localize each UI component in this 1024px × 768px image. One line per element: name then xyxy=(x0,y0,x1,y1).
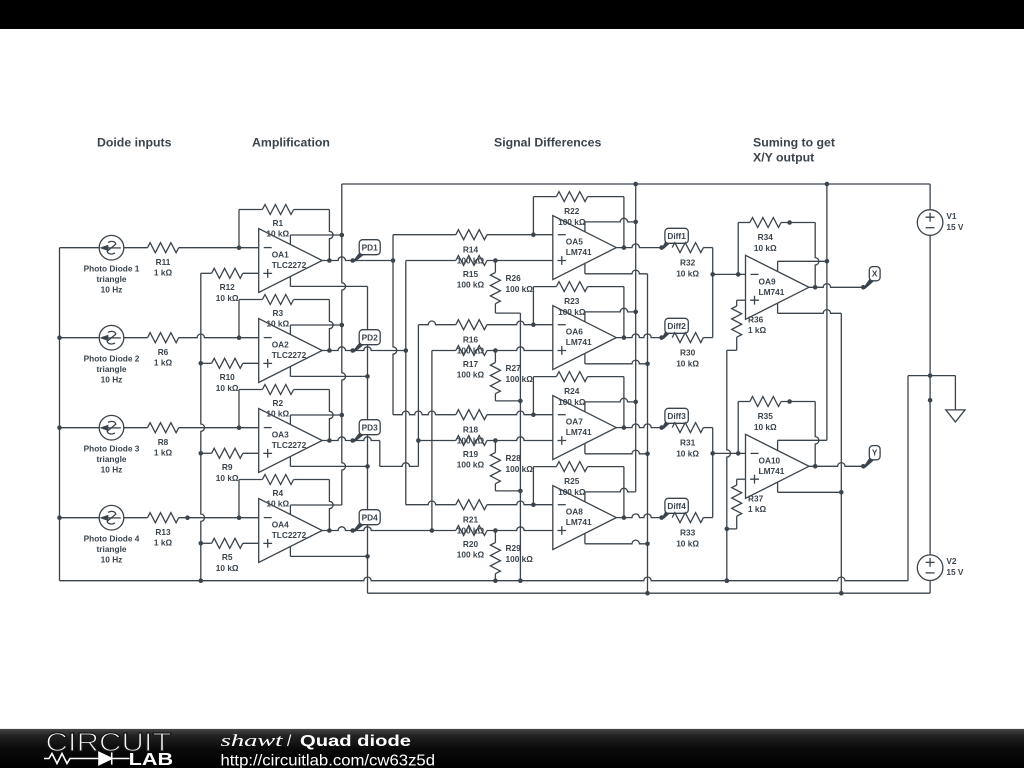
svg-text:R5: R5 xyxy=(222,552,233,562)
svg-text:TLC2272: TLC2272 xyxy=(272,260,307,270)
svg-text:shawt: shawt xyxy=(221,731,284,750)
resistor R10 10 kOhm xyxy=(212,358,243,368)
svg-text:10 Hz: 10 Hz xyxy=(101,284,123,294)
label R18 xyxy=(457,425,485,446)
op-amp OA7 LM741 xyxy=(553,396,617,460)
wire R18 to OA7 inverting input xyxy=(487,411,553,417)
wire node PD3 jog xyxy=(355,437,421,467)
footer url xyxy=(221,753,436,768)
label R12 xyxy=(216,282,239,303)
resistor R4 10 kOhm xyxy=(262,475,293,485)
wire ground tap right xyxy=(930,376,955,410)
label R25 xyxy=(558,476,586,497)
svg-text:X: X xyxy=(872,269,878,279)
svg-text:R22: R22 xyxy=(564,206,580,216)
wire R5 to OA4 non-inverting input xyxy=(243,542,259,544)
svg-text:triangle: triangle xyxy=(97,274,127,284)
resistor R12 10 kOhm xyxy=(212,268,243,278)
wire feedback riser right OA5 xyxy=(588,197,627,250)
wire V- pin OA4 xyxy=(290,547,369,559)
wire summing V+ bus xyxy=(825,182,830,441)
svg-text:100 kΩ: 100 kΩ xyxy=(506,284,534,294)
svg-text:10 kΩ: 10 kΩ xyxy=(754,422,777,432)
wire OA1 output xyxy=(322,257,353,261)
flag PD2 xyxy=(350,330,380,353)
flag Diff4 xyxy=(659,498,688,520)
wire diff V- bus xyxy=(647,274,649,593)
wire summing node to OA10 inverting input xyxy=(713,451,746,456)
resistor R35 10 kOhm xyxy=(750,397,781,407)
op-amp OA8 LM741 xyxy=(553,486,617,550)
wire OA5 output xyxy=(616,244,661,248)
label R34 xyxy=(754,232,777,253)
label R29 xyxy=(506,543,534,564)
flag Diff1 xyxy=(659,228,688,250)
wire V+ pin OA5 xyxy=(585,218,638,231)
resistor R23 100 kOhm xyxy=(556,282,587,292)
flag PD1 xyxy=(350,240,380,263)
wire R10 to ground bus xyxy=(199,361,212,366)
svg-text:10 kΩ: 10 kΩ xyxy=(676,448,699,458)
wire PD4 bus xyxy=(431,351,433,531)
svg-text:LAB: LAB xyxy=(129,749,174,768)
label Photo Diode 1 xyxy=(84,264,140,295)
svg-text:R9: R9 xyxy=(222,462,233,472)
resistor R26 100 kOhm xyxy=(490,261,500,304)
svg-text:Quad diode: Quad diode xyxy=(300,733,411,750)
svg-text:10 kΩ: 10 kΩ xyxy=(216,563,239,573)
wire R31 to summing node xyxy=(703,428,715,456)
svg-text:100 kΩ: 100 kΩ xyxy=(457,460,485,470)
wire V+ pin OA8 xyxy=(585,488,636,501)
section heading: Suming to get X/Y output xyxy=(753,136,835,165)
svg-text:100 kΩ: 100 kΩ xyxy=(558,307,586,317)
svg-text:Photo Diode 1: Photo Diode 1 xyxy=(84,264,140,274)
svg-text:10 kΩ: 10 kΩ xyxy=(216,473,239,483)
svg-text:PD3: PD3 xyxy=(362,423,379,433)
wire row 2 left xyxy=(60,337,100,339)
svg-text:100 kΩ: 100 kΩ xyxy=(558,217,586,227)
svg-text:R17: R17 xyxy=(463,359,479,369)
label R15 xyxy=(457,269,485,290)
resistor R18 100 kOhm xyxy=(456,410,487,420)
wire feedback top left OA3 xyxy=(239,389,262,391)
label R22 xyxy=(558,206,586,227)
svg-text:R26: R26 xyxy=(506,273,522,283)
label R35 xyxy=(754,411,777,432)
voltage source V2 15 V xyxy=(917,555,964,581)
wire R15 to OA5 non-inverting input xyxy=(487,258,553,263)
svg-text:Signal Differences: Signal Differences xyxy=(494,136,601,150)
label R24 xyxy=(558,386,586,407)
wire PD2 bus xyxy=(405,261,407,505)
label R2 xyxy=(266,398,289,419)
svg-text:R20: R20 xyxy=(463,539,479,549)
wire V+ pin OA7 xyxy=(585,398,638,411)
svg-text:1 kΩ: 1 kΩ xyxy=(154,268,173,278)
svg-text:R27: R27 xyxy=(506,363,522,373)
label R31 xyxy=(676,437,699,458)
svg-text:OA1: OA1 xyxy=(272,250,289,260)
wire feedback riser right OA8 xyxy=(588,467,627,520)
resistor R11 1 kOhm xyxy=(148,243,179,253)
svg-text:1 kΩ: 1 kΩ xyxy=(154,538,173,548)
wire to R21 xyxy=(406,501,456,505)
svg-text:Photo Diode 4: Photo Diode 4 xyxy=(84,534,140,544)
op-amp OA10 LM741 xyxy=(746,434,810,498)
wire node PD2 to bus xyxy=(355,347,408,353)
svg-text:10 kΩ: 10 kΩ xyxy=(266,409,289,419)
resistor R8 1 kOhm xyxy=(148,423,179,433)
svg-text:1 kΩ: 1 kΩ xyxy=(748,325,767,335)
wire TLC ground bus xyxy=(199,273,205,583)
svg-text:LM741: LM741 xyxy=(566,517,592,527)
svg-text:R18: R18 xyxy=(463,425,479,435)
wire feedback top right OA2 xyxy=(294,299,330,301)
op-amp OA2 TLC2272 xyxy=(259,319,323,383)
wire V- pin OA7 xyxy=(585,444,650,457)
wire V1 to V2 ground link xyxy=(928,235,933,555)
svg-text:Y: Y xyxy=(872,448,878,458)
svg-text:R3: R3 xyxy=(272,308,283,318)
wire ground tap left xyxy=(908,376,930,581)
wire R36 tail xyxy=(727,337,737,350)
resistor R34 10 kOhm xyxy=(750,218,781,228)
svg-text:R8: R8 xyxy=(158,437,169,447)
svg-text:Photo Diode 3: Photo Diode 3 xyxy=(84,444,140,454)
wire feedback riser right OA2 xyxy=(327,300,333,353)
wire summing V- bus xyxy=(840,313,842,593)
wire feedback top left OA2 xyxy=(239,299,262,301)
svg-text:R2: R2 xyxy=(272,398,283,408)
wire feedback riser left OA6 xyxy=(533,287,556,325)
svg-text:R37: R37 xyxy=(748,494,764,504)
svg-text:R13: R13 xyxy=(155,527,171,537)
section heading: Signal Differences xyxy=(494,136,601,150)
wire to R19 xyxy=(418,440,455,442)
svg-text:R32: R32 xyxy=(680,257,696,267)
svg-text:100 kΩ: 100 kΩ xyxy=(558,397,586,407)
label R10 xyxy=(216,372,239,393)
svg-text:OA2: OA2 xyxy=(272,340,289,350)
label R1 xyxy=(266,218,289,239)
resistor R25 100 kOhm xyxy=(556,462,587,472)
wire V+ pin OA4 xyxy=(290,505,341,515)
wire feedback riser right OA7 xyxy=(588,377,627,430)
resistor R19 100 kOhm xyxy=(456,436,487,446)
label R36 xyxy=(748,315,767,336)
wire OA6 output xyxy=(616,334,661,338)
svg-text:100 kΩ: 100 kΩ xyxy=(457,550,485,560)
svg-text:R12: R12 xyxy=(220,282,236,292)
resistor R6 1 kOhm xyxy=(148,333,179,343)
op-amp OA9 LM741 xyxy=(746,255,810,319)
op-amp OA3 TLC2272 xyxy=(259,409,323,473)
svg-text:R11: R11 xyxy=(156,257,171,267)
svg-text:R6: R6 xyxy=(158,347,169,357)
flag Y xyxy=(861,446,880,469)
svg-text:R23: R23 xyxy=(564,296,580,306)
resistor R36 1 kOhm xyxy=(732,306,742,337)
wire V+ pin OA10 xyxy=(778,440,827,450)
voltage source V1 15 V xyxy=(917,210,964,236)
svg-text:R36: R36 xyxy=(748,315,764,325)
svg-text:100 kΩ: 100 kΩ xyxy=(506,464,534,474)
svg-text:10 kΩ: 10 kΩ xyxy=(266,319,289,329)
label Photo Diode 2 xyxy=(84,354,140,385)
label R20 xyxy=(457,539,485,560)
svg-text:10 kΩ: 10 kΩ xyxy=(216,383,239,393)
wire TLC V+ bus xyxy=(342,184,346,505)
label R14 xyxy=(457,245,485,266)
resistor R15 100 kOhm xyxy=(456,256,487,266)
label R21 xyxy=(457,515,485,536)
wire feedback top left OA4 xyxy=(239,479,262,481)
resistor R33 10 kOhm xyxy=(672,513,703,523)
svg-text:LM741: LM741 xyxy=(566,247,592,257)
op-amp OA4 TLC2272 xyxy=(259,499,323,563)
svg-text:1 kΩ: 1 kΩ xyxy=(748,504,767,514)
wire R19 to OA7 non-inverting input xyxy=(487,437,553,443)
wire OA3 output xyxy=(322,437,353,441)
svg-text:10 kΩ: 10 kΩ xyxy=(676,538,699,548)
wire R16 to OA6 inverting input xyxy=(487,321,553,327)
svg-text:10 kΩ: 10 kΩ xyxy=(216,293,239,303)
wire OA2 output xyxy=(322,347,353,351)
label R32 xyxy=(676,257,699,278)
wire to R14 xyxy=(393,234,456,236)
photo diode source I3 (Photo Diode 3) xyxy=(99,415,124,440)
wire feedback riser left OA4 xyxy=(238,480,240,518)
svg-text:OA4: OA4 xyxy=(272,520,289,530)
wire row 4 left xyxy=(60,517,100,519)
wire feedback riser left OA9 xyxy=(738,223,750,275)
wire feedback riser left OA5 xyxy=(533,197,556,235)
svg-text:V2: V2 xyxy=(946,556,957,566)
wire R30 riser xyxy=(703,274,712,337)
label Photo Diode 4 xyxy=(84,534,140,565)
wire R14 to OA5 inverting input xyxy=(487,232,553,237)
label R5 xyxy=(216,552,239,573)
wire V2 negative lead xyxy=(929,581,931,594)
svg-text:http://circuitlab.com/cw63z5d: http://circuitlab.com/cw63z5d xyxy=(221,753,436,768)
wire R37 tail xyxy=(725,516,737,531)
wire to R16 xyxy=(418,321,455,325)
wire row 4 to OA4 inverting input xyxy=(179,515,259,520)
svg-text:Doide inputs: Doide inputs xyxy=(97,136,172,150)
svg-text:LM741: LM741 xyxy=(759,466,785,476)
svg-text:triangle: triangle xyxy=(97,454,127,464)
wire R12 to OA1 non-inverting input xyxy=(243,272,259,274)
wire to R17 xyxy=(432,350,456,352)
svg-text:LM741: LM741 xyxy=(566,427,592,437)
resistor R20 100 kOhm xyxy=(456,526,487,536)
wire R28 to reference bus xyxy=(495,484,522,494)
wire R33 riser xyxy=(703,453,712,517)
svg-text:100 kΩ: 100 kΩ xyxy=(558,487,586,497)
wire feedback top right OA1 xyxy=(294,209,330,211)
wire row 1 left xyxy=(60,247,100,249)
wire R12 to ground bus xyxy=(201,272,212,274)
resistor R32 10 kOhm xyxy=(672,243,703,253)
svg-text:PD1: PD1 xyxy=(362,243,379,253)
label R6 xyxy=(154,347,173,368)
svg-text:1 kΩ: 1 kΩ xyxy=(154,358,173,368)
wire TLC V- bus xyxy=(368,286,931,595)
svg-text:10 kΩ: 10 kΩ xyxy=(676,268,699,278)
svg-text:Suming to get: Suming to get xyxy=(753,136,835,150)
photo diode source I4 (Photo Diode 4) xyxy=(99,505,124,530)
op-amp OA6 LM741 xyxy=(553,306,617,370)
wire left input bus xyxy=(57,248,62,581)
CircuitLab logo LAB xyxy=(129,749,174,768)
label R23 xyxy=(558,296,586,317)
wire feedback riser right OA3 xyxy=(327,390,333,443)
wire feedback top right OA4 xyxy=(294,479,330,481)
wire V- pin OA5 xyxy=(585,264,648,274)
resistor R9 10 kOhm xyxy=(212,448,243,458)
section heading: Amplification xyxy=(252,136,330,150)
wire divider ground bus xyxy=(725,350,731,583)
svg-text:R29: R29 xyxy=(506,543,522,553)
resistor R17 100 kOhm xyxy=(456,346,487,356)
svg-text:10 kΩ: 10 kΩ xyxy=(266,229,289,239)
svg-text:OA7: OA7 xyxy=(566,417,583,427)
wire feedback right OA9 xyxy=(781,220,819,289)
resistor R22 100 kOhm xyxy=(556,192,587,202)
svg-text:LM741: LM741 xyxy=(566,337,592,347)
svg-text:OA5: OA5 xyxy=(566,237,583,247)
resistor R31 10 kOhm xyxy=(672,423,703,433)
wire OA9 non-inverting input xyxy=(737,300,746,306)
svg-text:Photo Diode 2: Photo Diode 2 xyxy=(84,354,140,364)
wire R29 to ground rail xyxy=(493,574,498,583)
flag X xyxy=(861,267,880,290)
resistor R5 10 kOhm xyxy=(212,538,243,548)
flag Diff3 xyxy=(659,408,688,430)
CircuitLab logo CIRCUIT xyxy=(46,729,172,757)
wire top V+ rail xyxy=(342,183,930,185)
wire feedback riser left OA8 xyxy=(533,467,556,505)
resistor R30 10 kOhm xyxy=(672,333,703,343)
svg-text:triangle: triangle xyxy=(97,544,127,554)
wire to R18 xyxy=(393,411,456,415)
wire row 2 to OA2 inverting input xyxy=(179,334,259,340)
label R26 xyxy=(506,273,534,294)
svg-text:10 kΩ: 10 kΩ xyxy=(266,499,289,509)
wire V+ pin OA6 xyxy=(585,308,638,321)
wire feedback riser left OA7 xyxy=(533,377,556,415)
svg-text:10 Hz: 10 Hz xyxy=(101,554,123,564)
wire node PD4 to bus xyxy=(355,527,435,533)
wire V- pin OA1 xyxy=(290,277,367,287)
photo diode source I2 (Photo Diode 2) xyxy=(99,325,124,350)
flag PD3 xyxy=(350,420,380,443)
footer title: shawt / Quad diode xyxy=(221,731,412,750)
wire feedback top right OA3 xyxy=(294,389,330,391)
svg-text:10 Hz: 10 Hz xyxy=(101,464,123,474)
svg-text:triangle: triangle xyxy=(97,364,127,374)
wire node PD1 to bus xyxy=(353,258,396,263)
svg-text:PD2: PD2 xyxy=(362,333,379,343)
svg-text:R14: R14 xyxy=(463,245,479,255)
wire V- pin OA2 xyxy=(290,367,369,379)
svg-text:R1: R1 xyxy=(272,218,283,228)
svg-text:R25: R25 xyxy=(564,476,580,486)
label R3 xyxy=(266,308,289,329)
wire R26 to reference bus xyxy=(495,304,520,313)
label R27 xyxy=(506,363,534,384)
svg-text:15 V: 15 V xyxy=(946,222,964,232)
wire R9 to OA3 non-inverting input xyxy=(243,452,259,454)
svg-text:100 kΩ: 100 kΩ xyxy=(506,554,534,564)
section heading: Doide inputs xyxy=(97,136,172,150)
wire PD1 bus xyxy=(393,235,397,415)
wire R17 to OA6 non-inverting input xyxy=(487,347,553,353)
resistor R3 10 kOhm xyxy=(262,295,293,305)
label R11 xyxy=(154,257,173,278)
svg-text:TLC2272: TLC2272 xyxy=(272,530,307,540)
CircuitLab logo zigzag and diode xyxy=(44,752,130,764)
svg-text:LM741: LM741 xyxy=(759,287,785,297)
svg-text:R16: R16 xyxy=(463,335,479,345)
wire V- pin OA3 xyxy=(290,457,369,469)
svg-text:R21: R21 xyxy=(463,515,479,525)
svg-text:R35: R35 xyxy=(758,411,774,421)
wire R21 to OA8 inverting input xyxy=(487,501,553,507)
svg-text:X/Y output: X/Y output xyxy=(753,151,814,165)
wire feedback riser left OA1 xyxy=(238,210,240,248)
resistor R24 100 kOhm xyxy=(556,372,587,382)
label R30 xyxy=(676,347,699,368)
wire feedback riser left OA10 xyxy=(738,402,750,454)
svg-text:10 Hz: 10 Hz xyxy=(101,374,123,384)
wire OA7 output xyxy=(616,424,661,428)
svg-text:100 kΩ: 100 kΩ xyxy=(506,374,534,384)
wire diode 1 to R11 xyxy=(124,247,148,249)
wire feedback riser right OA4 xyxy=(327,480,333,533)
label R28 xyxy=(506,453,534,474)
wire row 1 to OA1 inverting input xyxy=(179,245,259,250)
label Photo Diode 3 xyxy=(84,444,140,475)
wire OA4 output xyxy=(322,527,353,531)
wire R27 to reference bus xyxy=(495,394,522,404)
label R4 xyxy=(266,488,289,509)
wire to R15 xyxy=(406,260,456,262)
op-amp OA1 TLC2272 xyxy=(259,229,323,293)
svg-text:R4: R4 xyxy=(272,488,283,498)
wire R9 to ground bus xyxy=(199,451,212,456)
wire feedback right OA10 xyxy=(781,399,819,468)
wire summing node to OA9 inverting input xyxy=(713,272,746,277)
wire feedback riser left OA3 xyxy=(238,390,240,428)
wire OA10 non-inverting input xyxy=(737,479,746,485)
label R13 xyxy=(154,527,173,548)
label R37 xyxy=(748,494,767,515)
svg-text:Diff3: Diff3 xyxy=(667,411,686,421)
svg-text:OA10: OA10 xyxy=(759,455,781,465)
wire feedback riser right OA1 xyxy=(327,210,333,263)
resistor R13 1 kOhm xyxy=(148,513,179,523)
op-amp OA5 LM741 xyxy=(553,216,617,280)
wire V+ pin OA9 xyxy=(778,259,830,271)
svg-text:R24: R24 xyxy=(564,386,580,396)
wire diff V+ bus xyxy=(633,182,638,492)
resistor R28 100 kOhm xyxy=(490,441,500,484)
top letterbox bar xyxy=(0,0,1024,29)
svg-text:TLC2272: TLC2272 xyxy=(272,440,307,450)
svg-text:1 kΩ: 1 kΩ xyxy=(154,448,173,458)
